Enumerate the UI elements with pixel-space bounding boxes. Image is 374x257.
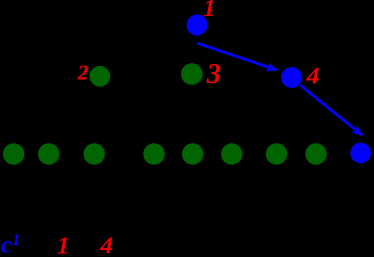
svg-text:4: 4 bbox=[305, 64, 319, 89]
svg-text:c: c bbox=[1, 233, 12, 257]
scale row dot i (blue) bbox=[350, 143, 371, 164]
scale row dot b (green) bbox=[38, 143, 59, 164]
svg-text:1: 1 bbox=[12, 230, 20, 249]
scale row dot c (green) bbox=[84, 143, 105, 164]
svg-text:2: 2 bbox=[77, 61, 89, 85]
note dot 4 (blue) bbox=[281, 67, 302, 88]
svg-text:1: 1 bbox=[57, 233, 70, 257]
note dot 1 (blue, top) bbox=[187, 15, 208, 36]
label 4 (bottom) bbox=[99, 233, 113, 257]
note dot 2 (green) bbox=[90, 66, 111, 87]
arrow 1 bbox=[197, 43, 277, 70]
scale row dot e (green) bbox=[182, 143, 203, 164]
label 4 (top) bbox=[305, 64, 319, 89]
scale row dot h (green) bbox=[305, 143, 326, 164]
scale row dot d (green) bbox=[143, 143, 164, 164]
note dot 3 (green) bbox=[181, 63, 203, 85]
scale row dot f (green) bbox=[221, 143, 242, 164]
svg-text:4: 4 bbox=[99, 233, 113, 257]
scale row dot g (green) bbox=[266, 143, 287, 164]
svg-text:3: 3 bbox=[206, 59, 221, 90]
scale row dot a (green) bbox=[3, 143, 24, 164]
svg-text:1: 1 bbox=[203, 0, 215, 22]
label 1 (bottom) bbox=[57, 233, 70, 257]
arrow 2 bbox=[300, 85, 362, 135]
